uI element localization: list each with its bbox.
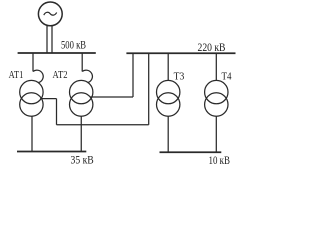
wire AT2 MV riser from 220 kV bus	[132, 53, 134, 97]
generator stem double line left	[46, 25, 48, 52]
svg-text:Т4: Т4	[222, 72, 232, 83]
wire AT1 MV exit horizontal	[40, 98, 56, 100]
bus 500 kV	[18, 52, 96, 54]
generator stem double line right	[51, 25, 53, 52]
transformer T3 bottom circle	[157, 93, 180, 116]
svg-text:10 кВ: 10 кВ	[209, 155, 231, 167]
autotransformer AT1 bottom circle	[20, 93, 43, 116]
bus 10 kV	[160, 151, 222, 153]
svg-text:220 кВ: 220 кВ	[198, 42, 226, 54]
wire AT1 MV horizontal under AT2	[57, 124, 149, 126]
wire AT2 LV drop to 35 kV bus	[80, 116, 82, 151]
bus 35 kV	[17, 151, 86, 153]
generator G1 circle	[38, 2, 62, 26]
wire T4 HV drop from 220 kV bus	[215, 53, 217, 80]
svg-text:АТ2: АТ2	[53, 70, 68, 81]
wire T3 HV drop from 220 kV bus	[167, 53, 169, 80]
generator G1 tilde symbol	[44, 12, 57, 15]
wire AT2 MV horizontal to winding	[90, 96, 133, 98]
autotransformer AT2 top circle	[70, 80, 93, 103]
wire T4 LV drop to 10 kV bus	[215, 116, 217, 152]
svg-text:35 кВ: 35 кВ	[71, 154, 94, 166]
autotransformer AT2 bottom circle	[70, 93, 93, 116]
wire AT2 HV drop from 500 kV bus	[81, 53, 83, 72]
wire T3 LV drop to 10 kV bus	[167, 116, 169, 152]
transformer T3 top circle	[157, 80, 180, 103]
svg-text:Т3: Т3	[174, 72, 185, 83]
wire AT1 MV riser to 220 kV bus	[148, 53, 150, 125]
wire AT1 HV drop from 500 kV bus	[32, 53, 34, 72]
wire AT1 LV drop to 35 kV bus	[31, 116, 33, 151]
transformer T4 bottom circle	[205, 93, 228, 116]
wire AT1 MV vertical down	[56, 99, 58, 125]
autotransformer AT1 top circle	[20, 80, 43, 103]
autotransformer AT1 series-winding hook	[33, 70, 43, 82]
autotransformer AT2 series-winding hook	[82, 70, 92, 82]
transformer T4 top circle	[205, 80, 228, 103]
svg-text:АТ1: АТ1	[9, 70, 24, 81]
bus 220 kV	[126, 52, 235, 54]
svg-text:500 кВ: 500 кВ	[61, 40, 86, 52]
